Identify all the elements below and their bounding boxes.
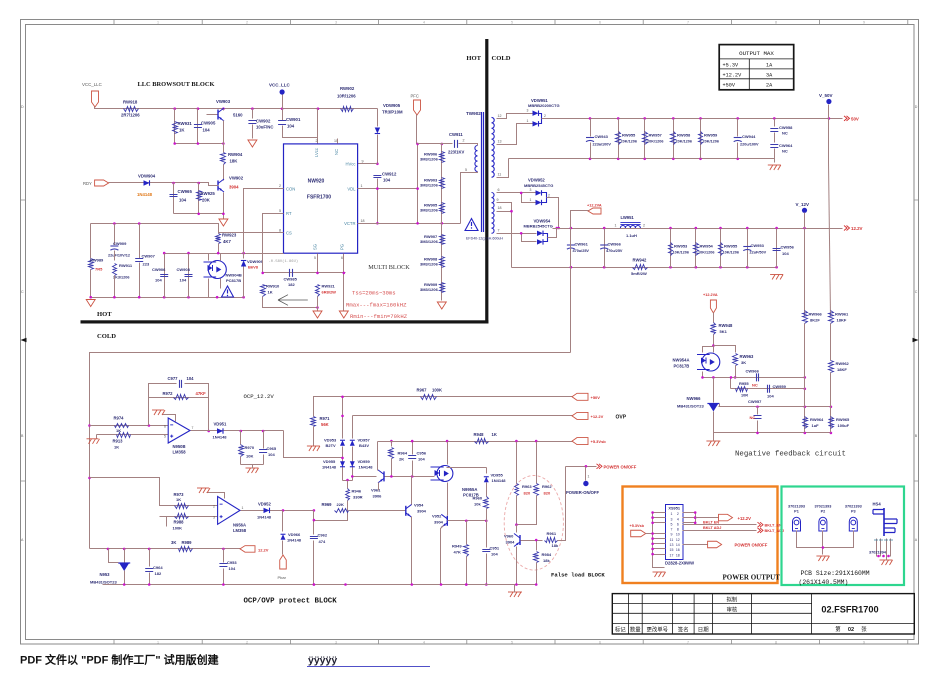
svg-text:820: 820 [544,491,551,496]
wire [358,163,378,165]
junction [465,583,468,586]
junction [485,583,488,586]
junction [669,266,672,269]
svg-text:182: 182 [288,282,295,287]
wire [174,109,176,144]
junction [695,266,698,269]
svg-text:BKLT ADJ: BKLT ADJ [703,526,721,530]
resistor RW989 [89,259,94,270]
junction [376,163,379,166]
svg-text:CW956: CW956 [781,245,795,250]
svg-text:(261X140.5MM): (261X140.5MM) [799,579,849,586]
wire [417,115,453,144]
ground arrow RW921 [313,311,322,318]
junction [672,158,675,161]
svg-text:37021393: 37021393 [845,505,862,509]
wire [283,126,318,138]
svg-text:1N4148: 1N4148 [257,515,272,520]
svg-text:CW961: CW961 [575,242,589,247]
wire [124,549,126,563]
svg-text:470u/25V: 470u/25V [573,249,590,253]
wire [757,421,759,433]
wire [282,95,284,109]
svg-text:3: 3 [335,21,337,25]
wire [653,533,666,535]
annotation arrow current [278,295,308,306]
svg-text:10K/1206: 10K/1206 [698,251,714,255]
junction [344,583,347,586]
svg-text:1N4148: 1N4148 [492,478,507,483]
wire [412,461,414,477]
resistor RW907 [440,235,445,245]
wire [774,133,776,143]
svg-text:3K: 3K [171,540,176,545]
svg-text:8K2F: 8K2F [810,318,820,323]
svg-text:1K: 1K [179,128,185,133]
wire [590,119,592,137]
svg-text:1: 1 [527,119,529,123]
junction [217,252,220,255]
junction [148,548,151,551]
svg-text:PCB Size:291X160MM: PCB Size:291X160MM [801,570,870,577]
junction [262,430,265,433]
capacitor CW961 [567,244,575,246]
svg-text:3: 3 [671,517,673,521]
transformer TW902 secondary top [492,117,495,177]
svg-text:1K: 1K [268,290,273,295]
wire [124,571,126,585]
junction [313,509,316,512]
mount stud P3 [849,517,857,531]
svg-text:CW909: CW909 [113,241,127,246]
svg-text:3904: 3904 [229,185,239,190]
svg-text:BKLT_EN: BKLT_EN [765,523,782,527]
junction [736,158,739,161]
wire [670,229,672,268]
svg-text:CW966: CW966 [608,242,622,247]
svg-text:P3: P3 [851,510,856,514]
junction [643,158,646,161]
junction [828,117,831,120]
svg-text:3M3/1206: 3M3/1206 [420,287,439,292]
junction [89,296,92,299]
svg-text:PG: PG [340,244,345,250]
svg-text:R955: R955 [739,381,749,386]
svg-text:182: 182 [155,571,162,576]
junction [341,396,344,399]
wire [516,442,518,484]
wire [90,353,571,549]
junction [887,555,890,558]
svg-text:18: 18 [676,553,680,557]
ground arrow PG [339,311,348,318]
junction [138,296,141,299]
svg-text:3906: 3906 [373,494,383,499]
wire [343,254,345,311]
junction [282,509,285,512]
svg-text:5K1: 5K1 [720,329,728,334]
svg-text:10K/1206: 10K/1206 [673,251,689,255]
svg-text:RW942: RW942 [633,258,648,263]
svg-text:1K: 1K [114,445,119,450]
svg-text:Rmax---fmax=160kHZ: Rmax---fmax=160kHZ [346,302,407,309]
resistor R988 [175,514,189,519]
resistor R955 fb [736,387,748,392]
wire [516,525,518,533]
svg-text:SG: SG [313,244,318,250]
svg-text:TW902: TW902 [466,111,481,116]
svg-text:POWER-ON/OFF: POWER-ON/OFF [566,490,599,495]
junction [746,266,749,269]
svg-text:3K3/1206: 3K3/1206 [113,276,129,280]
svg-text:RW918: RW918 [123,100,138,105]
wire [566,466,597,468]
svg-text:6R8/2W: 6R8/2W [322,290,337,295]
wire [880,539,882,557]
svg-text:5160: 5160 [233,113,243,118]
svg-text:1: 1 [157,21,159,25]
svg-text:-0.58V(1.86U): -0.58V(1.86U) [269,259,299,264]
wire [377,109,379,127]
transformer TW902 core [482,112,484,232]
wire [695,229,697,268]
wire [737,143,739,159]
wire [174,213,224,215]
wire [223,121,225,153]
svg-text:11: 11 [498,172,502,176]
svg-text:1: 1 [242,506,244,510]
wire [417,144,419,224]
svg-text:+5.3Vsb: +5.3Vsb [591,439,607,444]
warning triangle opto [222,286,234,297]
green box PCB [782,487,905,586]
svg-text:10k: 10k [474,502,481,507]
diode VD951 [217,428,223,433]
svg-text:18: 18 [361,219,365,223]
wire [804,229,806,317]
svg-text:R971: R971 [320,416,331,421]
svg-text:CW966: CW966 [746,369,760,374]
svg-text:RW989: RW989 [90,258,104,263]
svg-text:02: 02 [848,627,854,633]
wire [536,442,538,484]
junction [242,296,245,299]
svg-text:104: 104 [187,376,195,381]
svg-text:张: 张 [861,625,867,633]
mount stud P2 [819,517,827,531]
svg-text:HOT: HOT [97,311,112,318]
wire [240,457,242,465]
junction [148,424,151,427]
capacitor CW964 [770,145,778,148]
svg-text:TR3/P10M: TR3/P10M [382,110,403,115]
junction [712,376,715,379]
svg-text:16: 16 [676,548,680,552]
wire [536,563,538,585]
wire [185,384,209,398]
junction [651,532,654,535]
svg-text:CW908: CW908 [177,267,191,272]
wire [90,478,169,506]
svg-text:VD955: VD955 [323,459,336,464]
junction [187,252,190,255]
svg-text:3M3/1206: 3M3/1206 [420,262,439,267]
svg-text:标记: 标记 [615,625,626,633]
svg-text:签名: 签名 [678,625,689,633]
svg-text:470u/25V: 470u/25V [606,249,623,253]
wire [282,511,284,532]
junction [520,232,523,235]
diode VD955 [340,461,345,467]
net arrow +5.3Vsb sense [572,438,588,445]
junction [651,522,654,525]
wire [165,253,284,255]
wire [313,398,315,417]
svg-text:EFD40-12(pri)H.600uH: EFD40-12(pri)H.600uH [466,237,503,241]
svg-text:C962: C962 [318,533,328,538]
border frame ticks [113,20,115,645]
wire [191,430,284,432]
junction [148,583,151,586]
svg-text:1N4148: 1N4148 [287,538,302,543]
wire [207,114,219,116]
svg-text:104: 104 [179,198,187,203]
svg-text:XS951: XS951 [668,505,681,510]
svg-text:R913: R913 [113,439,124,444]
wire [829,163,831,317]
junction [712,344,715,347]
wire [548,229,557,238]
svg-text:+5.3Vsb: +5.3Vsb [630,524,645,528]
junction [617,158,620,161]
svg-text:104: 104 [491,552,498,557]
svg-text:RW923: RW923 [222,233,237,238]
svg-text:N950B: N950B [173,444,186,449]
transistor V954 [405,506,407,516]
svg-text:22uF/10V/12: 22uF/10V/12 [108,254,130,258]
wire [391,459,393,477]
wire [149,549,151,567]
optocoupler NW904B [208,261,226,279]
wire [713,313,715,323]
wire [509,158,775,160]
svg-text:R984: R984 [542,552,552,557]
svg-text:Tss=20ms~30ms: Tss=20ms~30ms [352,290,396,297]
wire [208,279,210,298]
wire [164,254,166,298]
svg-text:CW906: CW906 [152,267,166,272]
svg-text:FSFR1700: FSFR1700 [307,195,331,201]
svg-text:NW954A: NW954A [673,358,690,363]
wire [252,125,254,139]
svg-text:R967: R967 [417,388,428,393]
HOT COLD divider vertical [485,39,488,324]
svg-text:37021394: 37021394 [869,551,887,555]
junction [699,158,702,161]
svg-text:R988: R988 [174,520,185,525]
svg-text:R964: R964 [398,451,408,456]
resistor RW921 [316,285,320,297]
PDF watermark underline [307,666,430,668]
svg-text:9: 9 [362,160,364,164]
wire [263,214,284,273]
wire [391,442,393,447]
junction [822,546,825,549]
resistor RW906 [440,152,445,163]
wire [695,513,697,523]
svg-text:V961: V961 [371,488,381,493]
svg-text:LM358: LM358 [233,528,247,533]
wire [547,198,559,229]
svg-text:RW961: RW961 [835,312,849,317]
svg-text:RW966: RW966 [809,312,823,317]
wire [223,549,225,563]
svg-text:R961: R961 [547,531,557,536]
svg-text:1: 1 [530,198,532,202]
resistor R969 [335,509,349,513]
svg-text:12: 12 [498,114,502,118]
wire [774,149,776,163]
wire [317,109,319,144]
wire [571,211,589,353]
wire [683,524,757,526]
junction [570,227,573,230]
mount stud P1 [793,517,801,531]
junction [216,296,219,299]
svg-text:OCP/OVP protect BLOCK: OCP/OVP protect BLOCK [244,598,338,606]
junction [701,376,704,379]
svg-text:474: 474 [319,539,326,544]
wire [114,251,116,261]
svg-text:OUTPUT MAX: OUTPUT MAX [739,50,774,57]
svg-text:7: 7 [498,228,500,232]
wire [342,447,344,481]
svg-text:NC: NC [782,149,788,154]
wire [252,465,254,469]
svg-text:N956A: N956A [233,523,246,528]
net arrow +50V sense [572,393,588,400]
junction [240,430,243,433]
svg-text:5: 5 [511,21,513,25]
wire [90,548,241,550]
svg-text:5: 5 [279,209,281,213]
svg-text:RW955: RW955 [622,133,636,138]
svg-text:1.1uH: 1.1uH [626,233,637,238]
wire [175,143,224,145]
svg-text:6: 6 [341,256,343,260]
svg-text:9: 9 [863,21,865,25]
resistor RW902 [341,107,354,112]
svg-text:MB431/SOT23: MB431/SOT23 [677,404,704,409]
junction [316,272,319,275]
svg-text:C: C [915,290,918,294]
svg-text:8: 8 [775,21,777,25]
wire [377,442,379,471]
border centre arrows [21,338,27,342]
transistor VW902 [217,181,219,191]
svg-text:7: 7 [192,426,194,430]
svg-text:15: 15 [670,548,674,552]
wire [536,541,538,551]
svg-text:104: 104 [229,566,236,571]
diode VD952 [264,508,270,513]
junction [113,222,116,225]
wire [90,425,169,427]
optocoupler NW954A [702,353,720,371]
svg-text:47K: 47K [454,550,461,555]
svg-text:CW957: CW957 [748,399,762,404]
junction [756,406,759,409]
svg-text:100K: 100K [432,388,442,393]
wire [223,109,225,111]
wire [447,483,449,516]
svg-text:3904: 3904 [506,540,516,545]
svg-text:LW951: LW951 [621,215,635,220]
wire [354,108,378,110]
svg-text:MB431/SOT23: MB431/SOT23 [90,580,117,585]
junction [251,107,254,110]
wire [828,105,830,119]
wire [714,346,736,353]
svg-text:LLC BROWSOUT BLOCK: LLC BROWSOUT BLOCK [138,81,215,88]
resistor RW942 [633,265,648,270]
wire [804,324,806,433]
wire [553,228,843,230]
wire [683,544,708,546]
wire [90,270,92,298]
junction [313,583,316,586]
wire [590,143,592,159]
svg-text:Negative feedback circuit: Negative feedback circuit [735,451,846,459]
svg-text:C965: C965 [267,446,277,451]
wire [90,224,92,259]
junction [730,376,733,379]
junction [440,583,443,586]
wire [497,159,509,178]
wire [223,193,225,219]
wire [653,554,666,556]
wire [244,189,284,254]
junction [775,227,778,230]
junction [88,424,91,427]
wire [263,455,265,465]
svg-text:CW901: CW901 [286,117,301,122]
svg-text:+50V: +50V [591,395,601,400]
junction [570,266,573,269]
svg-text:1: 1 [157,640,159,644]
wire [757,407,759,415]
wire [830,324,832,361]
svg-text:NW904B: NW904B [226,273,242,278]
svg-text:CW905: CW905 [201,121,216,126]
ground r970 [246,467,259,469]
wire [522,234,537,242]
svg-text:10R: 10R [741,394,748,398]
wire [240,431,242,445]
svg-text:B6V8: B6V8 [248,265,259,270]
net arrow +12.2V rail [844,226,850,231]
wire [167,516,218,518]
svg-text:2: 2 [246,21,248,25]
svg-text:8: 8 [775,640,777,644]
svg-text:C977: C977 [168,376,179,381]
wire [207,493,225,499]
resistor RW962 [829,361,834,373]
wire [412,442,414,455]
wire [486,483,488,497]
svg-text:2: 2 [463,139,465,143]
svg-text:日期: 日期 [698,626,709,633]
